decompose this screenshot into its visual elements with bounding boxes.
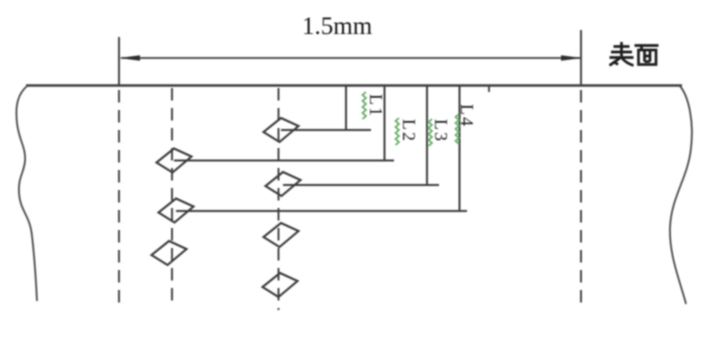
svg-text:L1: L1 [366,94,386,118]
svg-text:L4: L4 [457,104,477,128]
svg-text:1.5mm: 1.5mm [302,13,373,40]
svg-text:L2: L2 [399,119,419,143]
svg-text:L3: L3 [431,119,451,143]
